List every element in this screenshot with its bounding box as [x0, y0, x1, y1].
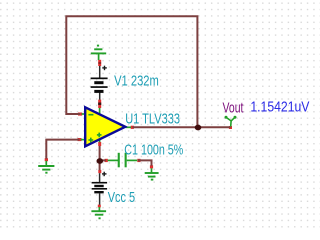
- svg-text:C1 100n 5%: C1 100n 5%: [124, 142, 183, 159]
- svg-text:1.15421uV: 1.15421uV: [250, 98, 309, 115]
- svg-text:Vout: Vout: [223, 99, 244, 116]
- svg-text:Vcc 5: Vcc 5: [108, 189, 135, 206]
- svg-text:V1 232m: V1 232m: [114, 72, 159, 89]
- svg-text:U1 TLV333: U1 TLV333: [125, 110, 180, 127]
